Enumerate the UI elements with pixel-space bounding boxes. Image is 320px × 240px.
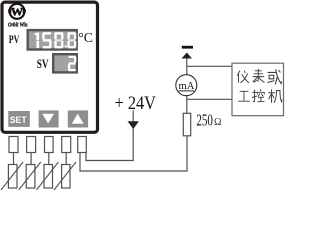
svg-text:PV: PV xyxy=(9,34,20,46)
svg-text:Orbit Win: Orbit Win xyxy=(8,22,28,29)
svg-text:SV: SV xyxy=(37,56,49,71)
svg-text:Ω: Ω xyxy=(214,117,221,128)
svg-text:SET: SET xyxy=(10,115,27,126)
svg-text:°C: °C xyxy=(78,30,93,45)
svg-text:250: 250 xyxy=(196,111,213,130)
svg-text:+ 24V: + 24V xyxy=(115,94,157,114)
svg-text:W: W xyxy=(11,4,24,18)
svg-text:mA: mA xyxy=(179,81,196,92)
